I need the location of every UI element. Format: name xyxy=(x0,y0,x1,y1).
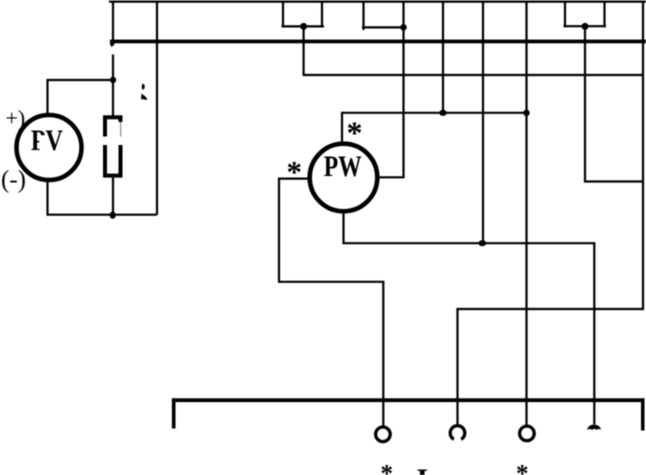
terminal strip left tick xyxy=(172,398,176,428)
junction dot U-loop 1 xyxy=(300,23,307,30)
wire top edge horizontal xyxy=(109,1,646,3)
junction dot on H2 right xyxy=(523,110,529,116)
terminal X3 ring xyxy=(520,426,535,441)
terminal strip right tick xyxy=(641,398,645,430)
wire voltmeter bottom net xyxy=(48,181,158,215)
wire horizontal H1 xyxy=(303,74,644,76)
svg-text:(-): (-) xyxy=(1,167,26,194)
wire right edge vertical xyxy=(642,2,644,309)
junction dot resistor bottom xyxy=(110,212,116,219)
junction dot U-loop 3 xyxy=(582,23,589,30)
voltmeter PV body xyxy=(17,115,82,180)
voltmeter PV label erosion patch xyxy=(39,135,48,143)
wire stub to bus at left xyxy=(112,2,114,46)
junction dot on H3 xyxy=(479,240,487,246)
wire U-loop 3 left leg xyxy=(564,2,566,28)
resistor R label remnant xyxy=(141,84,148,101)
wire horizontal H2 into wattmeter top xyxy=(342,113,527,144)
junction dot bracket 2 xyxy=(400,24,407,31)
wire from top edge through bus down to wattmeter right terminal xyxy=(379,2,404,178)
terminal X2 open ring xyxy=(450,426,465,440)
svg-text:*: * xyxy=(286,154,302,189)
svg-text:*: * xyxy=(516,460,529,475)
wire U-loop 1 left leg xyxy=(282,2,284,28)
junction dot bus/resistor top xyxy=(110,77,116,83)
bus bar xyxy=(110,40,646,44)
wire from top edge down to node on H3 xyxy=(482,2,484,244)
terminal X4 pad xyxy=(587,425,602,430)
wire wattmeter bottom to terminal X4 xyxy=(344,211,595,425)
wire from top edge down to terminal X3 xyxy=(525,2,527,426)
bus bar left end tick xyxy=(110,43,116,47)
wire U-loop 1 right leg xyxy=(321,2,323,28)
wire U-loop 3 bottom xyxy=(564,25,607,27)
wire resistor top lead xyxy=(112,55,114,117)
svg-text:PW: PW xyxy=(324,151,362,183)
svg-text:*: * xyxy=(381,460,394,475)
wire from top edge down to PV bottom net xyxy=(156,2,158,215)
wire wattmeter left terminal xyxy=(279,179,383,426)
wire U-loop 1 bottom xyxy=(282,25,325,27)
wire U-loop 3 right leg xyxy=(603,2,605,28)
wattmeter PW body xyxy=(310,144,378,212)
wire horizontal H4 to terminal X2 xyxy=(458,309,645,425)
terminal X1 ring xyxy=(376,427,391,442)
junction dot on H2 left xyxy=(439,110,447,116)
svg-text:*: * xyxy=(347,115,363,151)
wire bracket 2 bottom xyxy=(362,26,404,28)
wire voltmeter top xyxy=(48,80,114,114)
svg-text:I: I xyxy=(416,463,428,475)
resistor R faded right edge xyxy=(118,122,124,137)
resistor R body xyxy=(105,117,121,175)
svg-text:+): +) xyxy=(6,106,26,131)
terminal strip bar xyxy=(172,398,645,402)
wire from U-loop 3 junction down to y181 branch xyxy=(585,26,643,181)
wire bracket 2 left leg xyxy=(362,2,364,30)
wire from U-loop 1 junction down through bus to node H1 xyxy=(303,26,305,75)
wire resistor bottom lead xyxy=(112,177,114,215)
wire from top edge down to current node H2 xyxy=(442,2,444,113)
resistor R scan dropout band xyxy=(99,137,127,146)
